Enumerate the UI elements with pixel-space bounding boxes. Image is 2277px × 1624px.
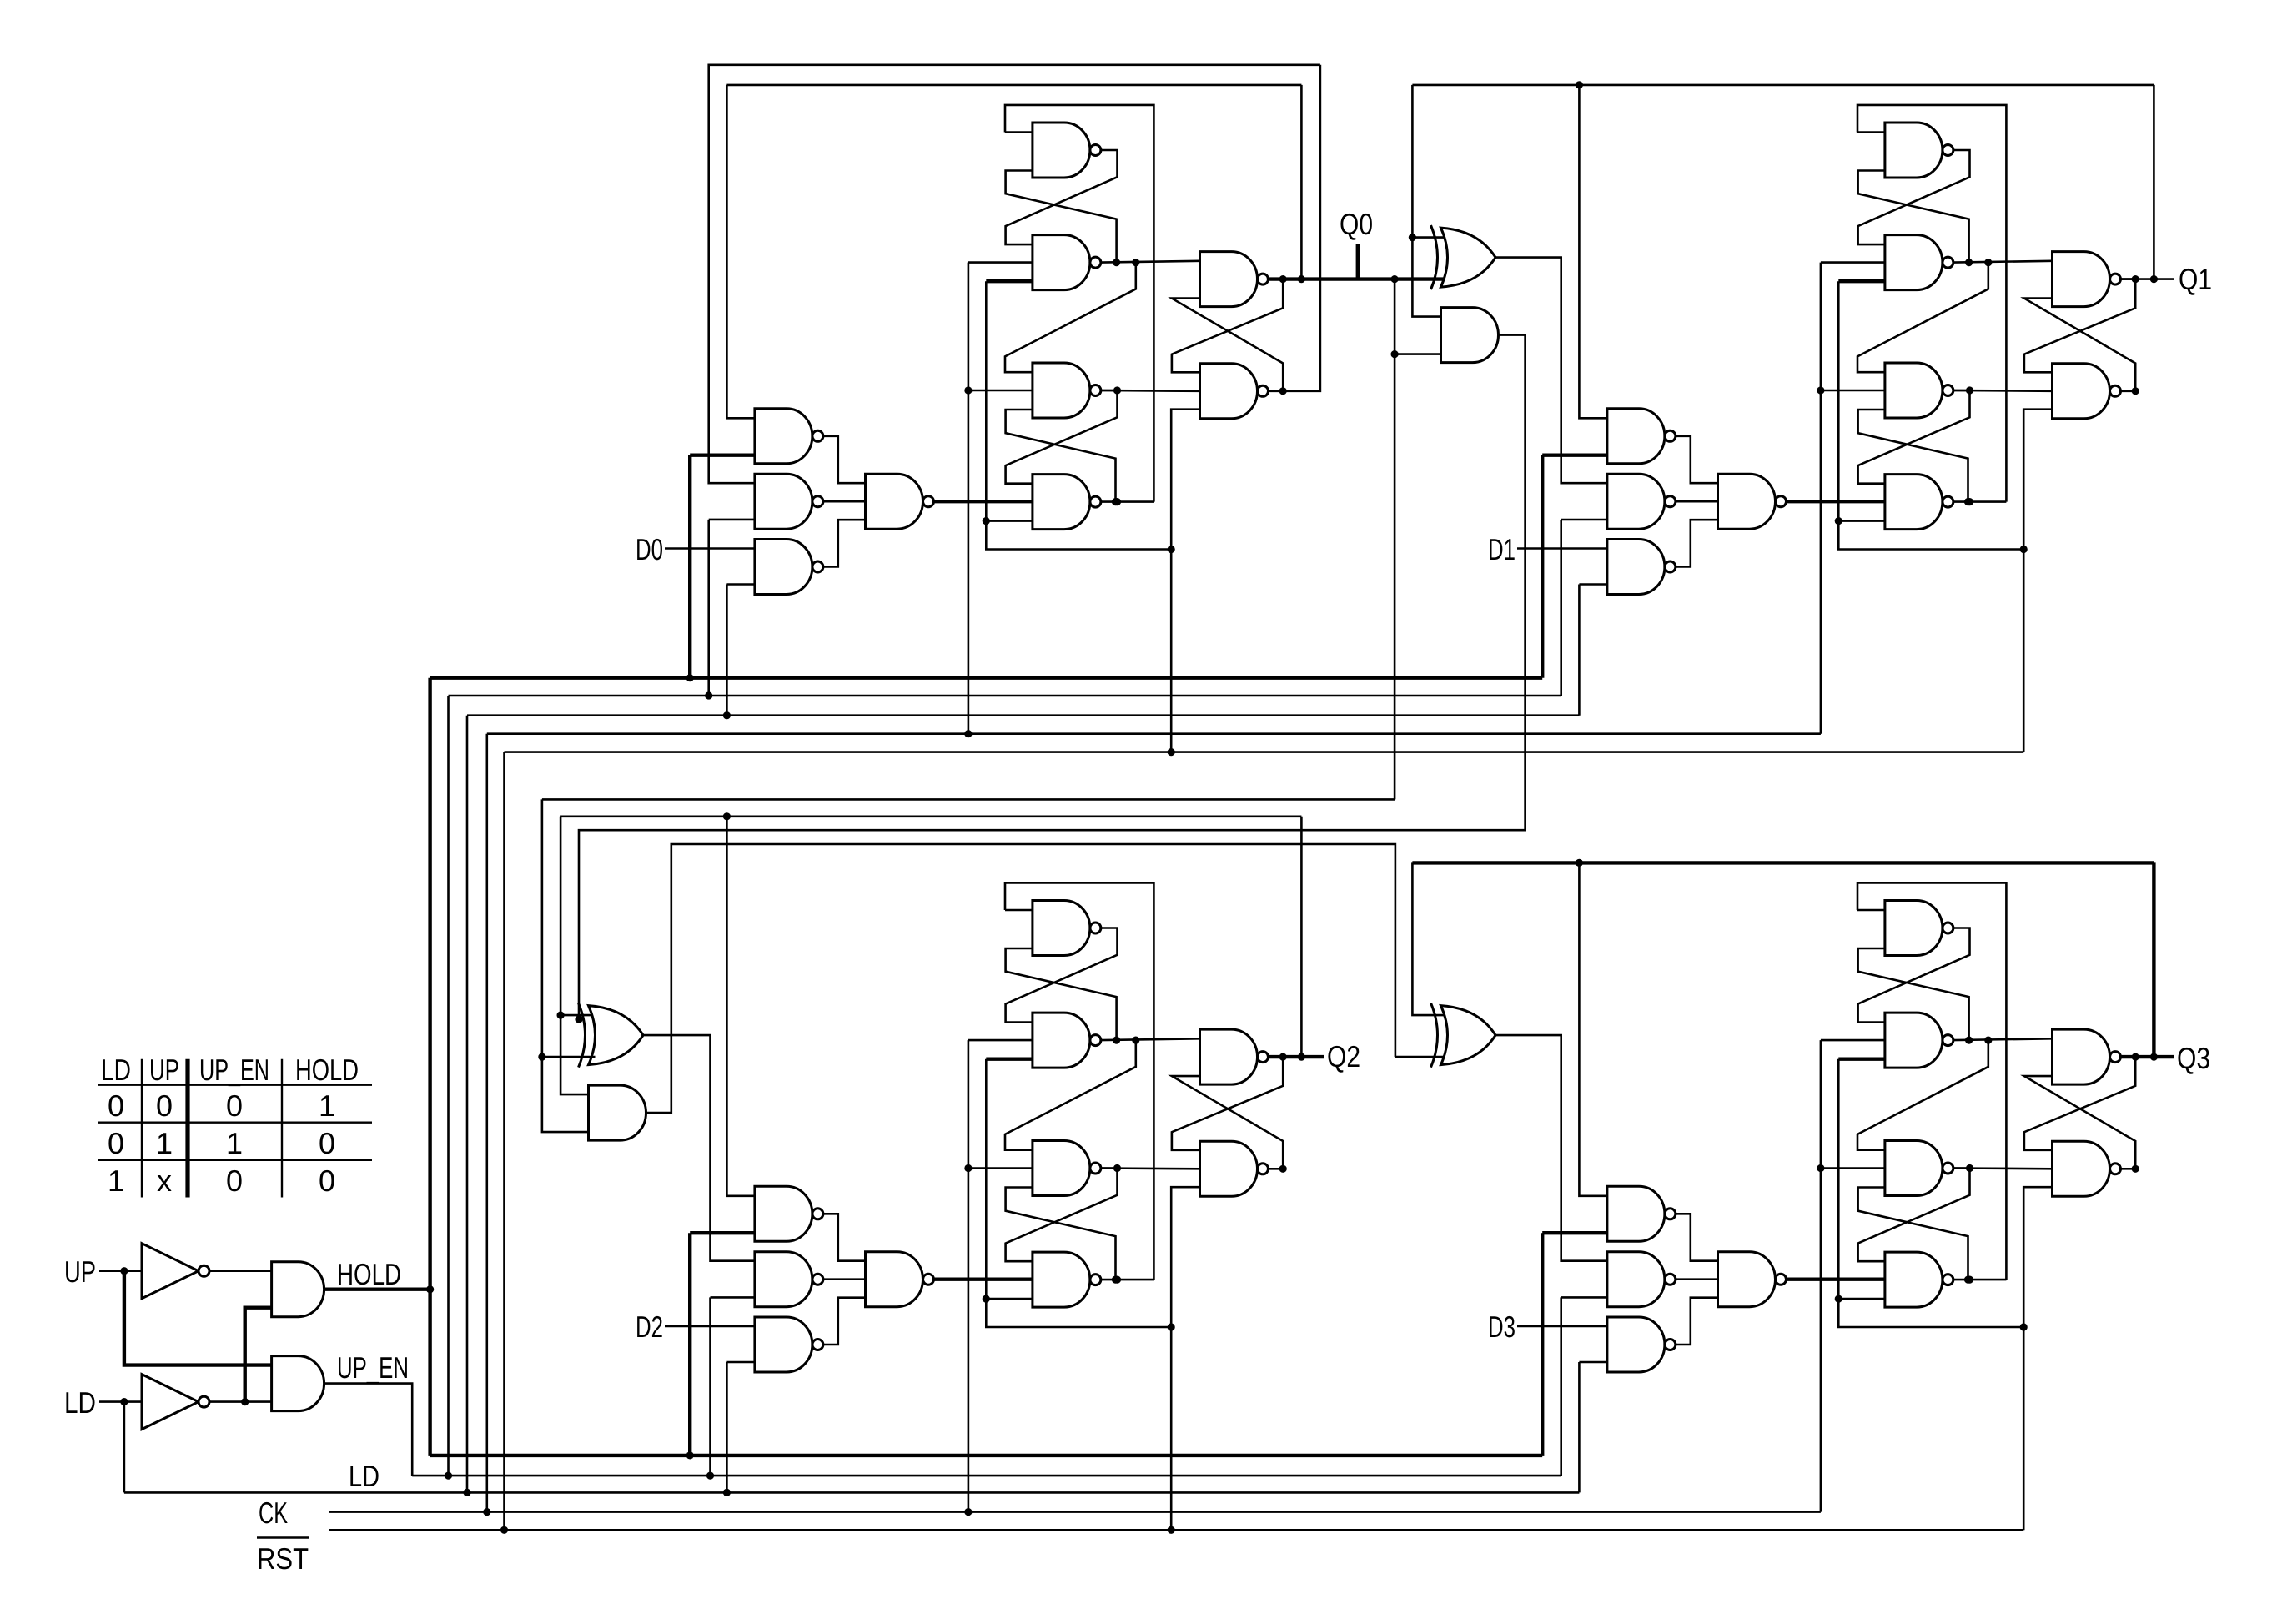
wire RST vertical [503, 752, 505, 1531]
wire CK vertical [485, 734, 488, 1512]
wire LD riser bit1 [1579, 583, 1607, 586]
XOR U2 bit2 [579, 1003, 644, 1068]
wire G3 output to latch GB bit1 [1953, 390, 2053, 392]
NAND GB output latch bit2 [1200, 1141, 1269, 1196]
wire T2 output to combiner bit3 [1676, 1278, 1718, 1280]
wire carry into XOR3 input bit3 [1395, 1056, 1448, 1058]
wire T1 output to combiner bit0 [823, 436, 866, 483]
wire RST vertical to G2 G4 GB bit0 [986, 279, 1033, 283]
wire top loop G1 input from G4 output bit1 [1857, 131, 1885, 133]
wire T1 output to combiner bit3 [1676, 1214, 1718, 1260]
wire D2 input [665, 1325, 755, 1328]
wire Q2 to XOR input bit2 [560, 1014, 595, 1017]
wire X-coupling G3 to G4 bit1 [1858, 390, 1970, 484]
wire LD inverter to HOLD gate [245, 1308, 272, 1402]
wire G3 output to latch GB bit0 [1101, 390, 1200, 392]
svg-text:D3: D3 [1488, 1310, 1515, 1344]
wire UP inverter out [210, 1270, 272, 1272]
wire Q1 output line [2121, 278, 2175, 280]
wire LD input [99, 1400, 142, 1403]
wire X-coupling GB to GA bit2 [1172, 1076, 1283, 1169]
NAND G3 flip-flop bit3 [1885, 1141, 1953, 1196]
wire RST vertical to G2 G4 GB bit1 [1838, 279, 1885, 283]
svg-text:1: 1 [108, 1164, 124, 1198]
wire CK mid bus [487, 732, 1821, 735]
wire Q2 output stub [1269, 1055, 1325, 1058]
wire UP input [99, 1270, 142, 1272]
NAND G3 flip-flop bit2 [1033, 1141, 1101, 1196]
wire UP_EN riser to T2 bit3 [1561, 1296, 1607, 1299]
svg-text:1: 1 [319, 1089, 335, 1123]
wire LD mid bus [467, 714, 1579, 716]
svg-text:0: 0 [226, 1164, 243, 1198]
NAND G1 flip-flop bit1 [1885, 123, 1953, 178]
NAND T3 input mux bit1 [1607, 540, 1676, 595]
wire X-coupling GA to GB bit1 [2024, 279, 2135, 373]
svg-text:0: 0 [319, 1164, 335, 1198]
wire HOLD riser to T1 bit0 [688, 455, 691, 678]
wire Q3 to XOR input bit3 [1412, 862, 1447, 1015]
wire RST bottom bus [329, 1529, 2023, 1531]
inverter UP [142, 1244, 209, 1299]
wire T1 HOLD input stub bit2 [690, 1231, 755, 1234]
wire inner loop Q2 feedback bit2 [560, 815, 1301, 817]
NAND T2 input mux bit2 [755, 1252, 823, 1307]
wire LD down to bus [123, 1402, 126, 1493]
wire CK riser bit3 [1820, 1040, 1822, 1512]
NAND GA output latch bit1 [2053, 252, 2121, 307]
wire LD riser bit2 [726, 1361, 755, 1364]
wire T2 output to combiner bit0 [823, 500, 866, 503]
wire UP_EN riser to T2 bit1 [1561, 519, 1607, 521]
NAND CMB combiner bit2 [866, 1252, 934, 1307]
wire RST vertical to G2 G4 GB bit2 [986, 1057, 1033, 1060]
svg-text:0: 0 [319, 1126, 335, 1160]
wire T1 HOLD input stub bit1 [1542, 454, 1607, 457]
wire D1 input [1517, 547, 1607, 550]
NAND T1 input mux bit1 [1607, 409, 1676, 464]
AND HOLD gate [272, 1262, 324, 1317]
svg-text:Q1: Q1 [2179, 262, 2212, 296]
wire X-coupling G3 to G4 bit0 [1006, 390, 1118, 484]
wire T1 output to combiner bit1 [1676, 436, 1718, 483]
NAND GA output latch bit0 [1200, 252, 1269, 307]
svg-text:UP_EN: UP_EN [199, 1053, 269, 1087]
AND UP_EN gate [272, 1356, 324, 1411]
NAND T3 input mux bit2 [755, 1317, 823, 1372]
wire X-coupling GA to GB bit0 [1172, 279, 1283, 373]
NAND G3 flip-flop bit0 [1033, 363, 1101, 418]
NAND CMB combiner bit0 [866, 474, 934, 529]
wire HOLD riser bit2 [688, 1233, 691, 1456]
wire D3 input [1517, 1325, 1607, 1328]
NAND GB output latch bit1 [2053, 364, 2121, 419]
svg-text:0: 0 [156, 1089, 173, 1123]
wire X-coupling G1 to G2 bit3 [1858, 928, 1970, 1023]
wire AND1 carry output to bit2 [579, 335, 1526, 1020]
NAND G2 flip-flop bit2 [1033, 1013, 1101, 1068]
wire CK vertical to G2 and G3 bit0 [968, 261, 1033, 264]
wire T2 output to combiner bit1 [1676, 500, 1718, 503]
wire G2 output diagonal to G3 input bit3 [1857, 1040, 1988, 1150]
NAND CMB combiner bit1 [1718, 474, 1787, 529]
NAND G1 flip-flop bit3 [1885, 901, 1953, 956]
NAND G2 flip-flop bit3 [1885, 1013, 1953, 1068]
wire RST riser bit3 [2023, 1327, 2025, 1530]
wire G2 output to latch GA bit3 [1953, 1038, 2053, 1040]
wire XOR3 output to T2 bit3 [1495, 1035, 1607, 1261]
wire T1 HOLD input stub bit0 [690, 454, 755, 457]
wire UP_EN riser to T2 bit2 [711, 1296, 755, 1299]
wire X-coupling GB to GA bit3 [2024, 1076, 2135, 1169]
wire UP_EN vertical [447, 696, 450, 1476]
wire combiner output to G4 bit2 [934, 1277, 1033, 1280]
wire G4 output to G1 loop bit1 [1953, 500, 2007, 503]
svg-text:D2: D2 [636, 1310, 663, 1344]
wire X-coupling G1 to G2 bit0 [1006, 150, 1118, 244]
NAND G3 flip-flop bit1 [1885, 363, 1953, 418]
NAND T1 input mux bit0 [755, 409, 823, 464]
NAND T2 input mux bit3 [1607, 1252, 1676, 1307]
wire RST mid bus [505, 751, 2024, 753]
wire inner loop Q1 feedback bit1 [1412, 84, 2154, 87]
svg-text:0: 0 [226, 1089, 243, 1123]
svg-text:D0: D0 [636, 532, 663, 566]
svg-text:Q0: Q0 [1340, 207, 1373, 241]
wire LD riser to T3 bit0 [726, 583, 755, 586]
NAND CMB combiner bit3 [1718, 1252, 1787, 1307]
wire X-coupling G4 to G3 bit3 [1858, 1188, 1968, 1280]
NAND T1 input mux bit2 [755, 1186, 823, 1241]
svg-text:Q2: Q2 [1327, 1039, 1360, 1073]
wire RST riser bit0 [1170, 550, 1173, 752]
NAND T3 input mux bit0 [755, 540, 823, 595]
NAND T3 input mux bit3 [1607, 1317, 1676, 1372]
XOR U3 bit3 [1431, 1003, 1496, 1068]
wire X-coupling G4 to G3 bit2 [1006, 1188, 1116, 1280]
wire UP_EN bottom bus [412, 1475, 1561, 1477]
wire G2 output to latch GA bit1 [1953, 261, 2053, 263]
svg-text:0: 0 [108, 1126, 124, 1160]
wire HOLD bottom bus [430, 1454, 1543, 1457]
wire LD riser bit3 [1579, 1361, 1607, 1364]
svg-text:UP: UP [64, 1254, 96, 1289]
wire HOLD riser bit1 [1541, 455, 1544, 678]
wire G2 output diagonal to G3 input bit2 [1005, 1040, 1136, 1150]
NAND GA output latch bit3 [2053, 1029, 2121, 1084]
svg-text:HOLD: HOLD [295, 1053, 359, 1087]
wire X-coupling G2 to G1 bit3 [1858, 948, 1969, 1040]
svg-text:LD: LD [64, 1385, 96, 1420]
wire CK vertical to G2 and G3 bit2 [968, 1039, 1033, 1042]
XOR U1 bit1 [1431, 225, 1496, 289]
wire Q0 feed line to bit2 [542, 798, 1395, 801]
wire G2 output diagonal to G3 input bit1 [1857, 263, 1988, 373]
NAND T1 input mux bit3 [1607, 1186, 1676, 1241]
svg-text:D1: D1 [1488, 532, 1515, 566]
wire X-coupling GA to GB bit3 [2024, 1057, 2135, 1150]
svg-text:UP: UP [149, 1053, 179, 1087]
wire D0 input [665, 547, 755, 550]
NAND GA output latch bit2 [1200, 1029, 1269, 1084]
wire G2 output diagonal to G3 input bit0 [1005, 263, 1136, 373]
NAND G1 flip-flop bit2 [1033, 901, 1101, 956]
wire HOLD riser bit3 [1541, 1233, 1544, 1456]
wire X-coupling G4 to G3 bit0 [1006, 410, 1116, 502]
wire X-coupling G2 to G1 bit1 [1858, 171, 1969, 263]
wire CK vertical to G2 and G3 bit1 [1821, 261, 1885, 264]
wire inner loop Q3 feedback bit3 [1412, 861, 2154, 864]
wire UP_EN output [324, 1384, 413, 1476]
truth table [98, 1053, 372, 1198]
wire X-coupling G4 to G3 bit1 [1858, 410, 1968, 502]
wire X-coupling G2 to G1 bit2 [1006, 948, 1117, 1040]
wire G2 output to latch GA bit0 [1101, 261, 1200, 263]
wire X-coupling G3 to G4 bit2 [1006, 1169, 1118, 1262]
wire RST riser bit1 [2023, 550, 2025, 752]
wire CK bottom bus [329, 1511, 1821, 1513]
wire Q0 branch down to lower row [1391, 275, 1399, 283]
svg-text:LD: LD [101, 1053, 131, 1087]
wire T2 output to combiner bit2 [823, 1278, 866, 1280]
wire X-coupling GB to GA bit1 [2024, 299, 2135, 391]
wire LD inverter out [210, 1400, 272, 1403]
wire T3 output to combiner bit3 [1676, 1298, 1718, 1345]
NAND G4 flip-flop bit0 [1033, 475, 1101, 530]
svg-text:x: x [157, 1164, 172, 1198]
wire top loop G1 input from G4 output bit3 [1857, 909, 1885, 912]
wire UP_EN riser to T2 bit0 [709, 519, 755, 521]
wire HOLD mid bus [430, 676, 1543, 680]
svg-text:0: 0 [108, 1089, 124, 1123]
wire HOLD output [324, 1287, 430, 1290]
NAND G2 flip-flop bit0 [1033, 235, 1101, 290]
NAND GB output latch bit3 [2053, 1141, 2121, 1196]
wire Q1 to XOR input bit1 [1412, 236, 1447, 239]
svg-text:UP_EN: UP_EN [337, 1350, 409, 1385]
svg-text:HOLD: HOLD [337, 1257, 401, 1291]
NAND T2 input mux bit1 [1607, 474, 1676, 529]
wire CK riser bit2 [968, 1040, 970, 1512]
wire T1 output to combiner bit2 [823, 1214, 866, 1260]
NAND G4 flip-flop bit1 [1885, 475, 1953, 530]
NAND T2 input mux bit0 [755, 474, 823, 529]
wire inner loop Q0 feedback bit0 [726, 84, 1301, 87]
wire HOLD vertical [428, 678, 431, 1456]
NAND GB output latch bit0 [1200, 364, 1269, 419]
wire UP to UP_EN gate [124, 1271, 272, 1365]
wire LD bottom bus [124, 1491, 1580, 1494]
NAND G1 flip-flop bit0 [1033, 123, 1101, 178]
wire AND2 carry output to bit3 [646, 844, 1395, 1113]
wire G3 output to latch GB bit3 [1953, 1167, 2053, 1169]
wire outer loop Qbar to T2 input bit0 [709, 65, 1320, 483]
AND carry bit1 [1441, 308, 1499, 363]
wire CK vertical to G2 and G3 bit3 [1821, 1039, 1885, 1042]
wire combiner output to G4 bit0 [934, 500, 1033, 503]
wire T1 HOLD input stub bit3 [1542, 1231, 1607, 1234]
wire CK riser bit0 [968, 263, 970, 734]
svg-text:CK: CK [259, 1496, 288, 1530]
wire Q0 output line [1269, 277, 1448, 280]
wire X-coupling G1 to G2 bit1 [1858, 150, 1970, 244]
wire T3 output to combiner bit0 [823, 520, 866, 566]
svg-text:1: 1 [226, 1126, 243, 1160]
svg-text:Q3: Q3 [2177, 1041, 2210, 1075]
wire top loop G1 input from G4 output bit2 [1005, 909, 1033, 912]
wire G4 output to G1 loop bit2 [1101, 1279, 1154, 1281]
svg-text:RST: RST [257, 1541, 309, 1576]
wire X-coupling GB to GA bit0 [1172, 299, 1283, 391]
wire XOR2 output to T2 bit2 [643, 1035, 755, 1261]
NAND G4 flip-flop bit2 [1033, 1252, 1101, 1307]
wire UP_EN mid bus [449, 695, 1561, 697]
wire combiner output to G4 bit3 [1787, 1277, 1885, 1280]
wire G2 output to latch GA bit2 [1101, 1038, 1200, 1040]
wire CK riser bit1 [1820, 263, 1822, 734]
wire RST vertical to G2 G4 GB bit3 [1838, 1057, 1885, 1060]
wire G3 output to latch GB bit2 [1101, 1167, 1200, 1169]
wire top loop G1 input from G4 output bit0 [1005, 131, 1033, 133]
wire G4 output to G1 loop bit0 [1101, 500, 1154, 503]
wire Q3 output line [2121, 1055, 2175, 1058]
NAND G2 flip-flop bit1 [1885, 235, 1953, 290]
AND carry bit2 [589, 1085, 646, 1140]
wire X-coupling G3 to G4 bit3 [1858, 1169, 1970, 1262]
wire X-coupling G2 to G1 bit0 [1006, 171, 1117, 263]
svg-text:LD: LD [349, 1459, 379, 1493]
node Q0 tick [1356, 244, 1360, 279]
wire T3 output to combiner bit1 [1676, 520, 1718, 566]
wire X-coupling GA to GB bit2 [1172, 1057, 1283, 1150]
wire combiner output to G4 bit1 [1787, 500, 1885, 503]
wire GB output to outer loop Qbar bit0 [1283, 65, 1320, 391]
wire T3 output to combiner bit2 [823, 1298, 866, 1345]
wire LD vertical [466, 716, 469, 1493]
wire G4 output to G1 loop bit3 [1953, 1279, 2007, 1281]
wire X-coupling G1 to G2 bit2 [1006, 928, 1118, 1023]
inverter LD [142, 1375, 209, 1430]
wire RST riser bit2 [1170, 1327, 1173, 1530]
wire XOR1 output to T2 bit1 [1495, 258, 1607, 484]
NAND G4 flip-flop bit3 [1885, 1252, 1953, 1307]
svg-text:1: 1 [156, 1126, 173, 1160]
